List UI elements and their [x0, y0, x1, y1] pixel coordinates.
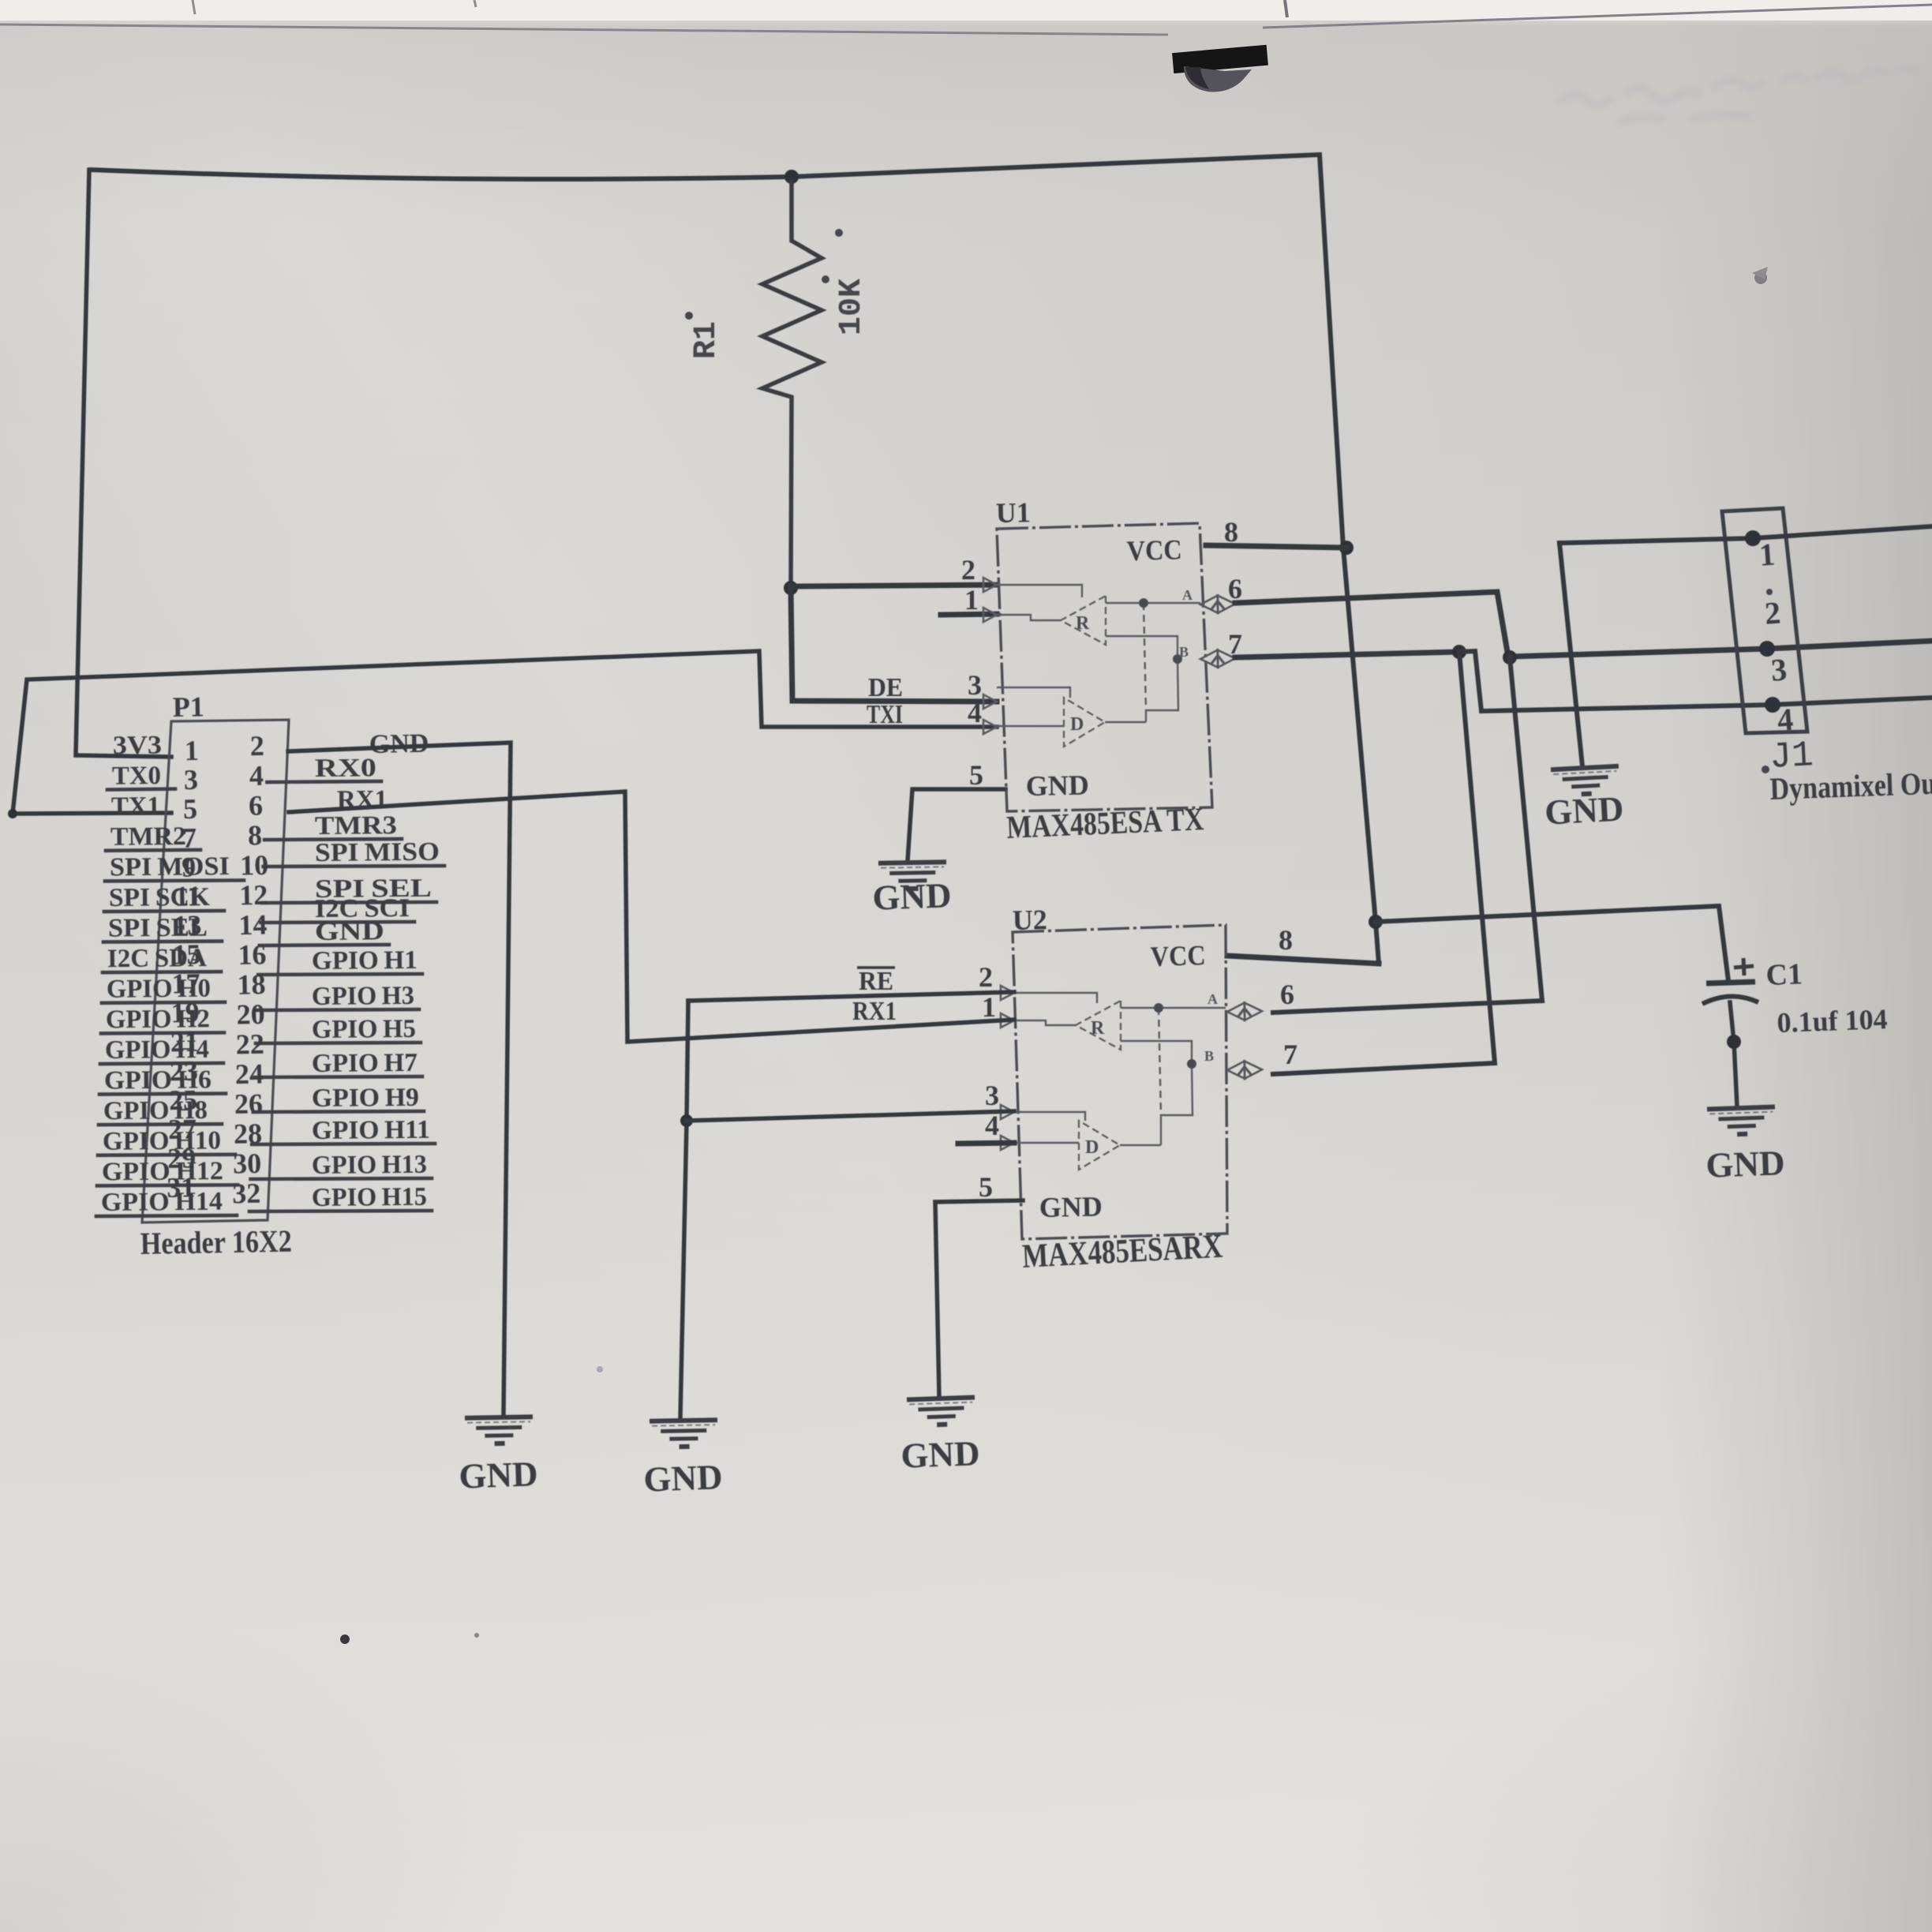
- svg-text:GPIO H1: GPIO H1: [312, 946, 417, 975]
- paper top edge line: [0, 24, 1168, 35]
- net label GPIO_H8 P1 pin 25: [99, 1124, 222, 1125]
- node U1 pin8 junction: [1339, 541, 1354, 555]
- svg-text:16: 16: [238, 938, 267, 971]
- wire U2 pin8 stub: [1227, 956, 1379, 964]
- svg-text:GND: GND: [1705, 1143, 1786, 1185]
- net label I2C_SCI P1 pin 14: [260, 922, 414, 923]
- wire RE net: U2 pin2: [688, 992, 1014, 1001]
- svg-text:32: 32: [232, 1178, 261, 1210]
- net label GPIO_H11 P1 pin 28: [252, 1144, 435, 1144]
- svg-text:TX0: TX0: [112, 762, 161, 791]
- svg-text:GPIO H11: GPIO H11: [312, 1116, 430, 1145]
- svg-text:3: 3: [1770, 651, 1788, 687]
- net label GND P1 pin 16: [260, 945, 389, 945]
- svg-text:VCC: VCC: [1126, 534, 1182, 567]
- svg-text:GPIO H10: GPIO H10: [103, 1126, 221, 1155]
- svg-text:R: R: [1076, 613, 1090, 634]
- wire B to J1 pin4 via step: [1459, 651, 1932, 711]
- svg-text:0.1uf 104: 0.1uf 104: [1777, 1003, 1888, 1039]
- node R1 top junction: [784, 170, 799, 184]
- svg-text:12: 12: [239, 879, 268, 912]
- svg-text:2: 2: [249, 730, 264, 762]
- svg-text:3: 3: [985, 1080, 999, 1111]
- svg-text:TMR3: TMR3: [315, 811, 397, 841]
- svg-text:GPIO H5: GPIO H5: [312, 1015, 416, 1044]
- op-amp U1 MAX485ESA TX box: [997, 523, 1212, 811]
- svg-text:6: 6: [249, 789, 264, 821]
- svg-text:B: B: [1179, 644, 1189, 660]
- svg-text:U1: U1: [995, 496, 1031, 529]
- node A junction D2: [1503, 650, 1517, 665]
- resistor R1: [762, 182, 822, 588]
- svg-text:8: 8: [1279, 924, 1293, 956]
- node J1 pin3: [1759, 641, 1775, 657]
- svg-text:SPI MISO: SPI MISO: [315, 838, 440, 867]
- svg-text:25: 25: [169, 1084, 198, 1116]
- svg-text:GPIO H13: GPIO H13: [312, 1151, 427, 1180]
- svg-text:4: 4: [1777, 701, 1795, 737]
- svg-text:18: 18: [237, 968, 266, 1001]
- svg-text:Dynamixel Out: Dynamixel Out: [1769, 765, 1932, 807]
- svg-text:GND: GND: [315, 917, 384, 946]
- wire B drop to U2 pin7: [1273, 652, 1495, 1074]
- svg-text:19: 19: [170, 997, 200, 1029]
- svg-text:Header 16X2: Header 16X2: [140, 1223, 292, 1261]
- wire A drop to U2 pin6: [1273, 657, 1542, 1013]
- svg-text:1: 1: [184, 735, 199, 766]
- node B junction D1: [1452, 645, 1466, 659]
- connector J1 box: [1722, 508, 1807, 733]
- svg-text:17: 17: [171, 968, 200, 1000]
- wire VCC branch to C1: [1376, 906, 1728, 981]
- U1 internal wiring: [997, 585, 1200, 726]
- svg-text:7: 7: [1283, 1039, 1297, 1070]
- svg-text:31: 31: [167, 1171, 196, 1204]
- svg-text:RX0: RX0: [315, 754, 376, 783]
- net label GPIO_H7 P1 pin 24: [254, 1076, 422, 1077]
- svg-text:D: D: [1070, 714, 1084, 735]
- svg-text:2: 2: [961, 554, 975, 586]
- node J1 pin4: [1765, 697, 1780, 713]
- svg-text:10K: 10K: [834, 279, 870, 335]
- net label GPIO_H9 P1 pin 26: [253, 1111, 424, 1112]
- svg-text:30: 30: [233, 1148, 262, 1180]
- U2 internal receiver triangle R: [1076, 1001, 1121, 1050]
- net label GPIO_H10 P1 pin 27: [98, 1155, 235, 1155]
- U2 internal wiring: [1014, 993, 1226, 1145]
- net label GPIO_H6 P1 pin 23: [99, 1094, 226, 1095]
- svg-text:11: 11: [174, 880, 202, 912]
- wire J1 pin1 net to GND and right edge: [1559, 526, 1932, 543]
- wire U2 pin3: [687, 1111, 1014, 1121]
- svg-text:RX1: RX1: [852, 997, 897, 1026]
- net label SPI_SCK P1 pin 11: [104, 911, 224, 912]
- net label GPIO_H1 P1 pin 18: [258, 974, 422, 975]
- svg-text:GND: GND: [872, 875, 953, 917]
- svg-text:8: 8: [248, 819, 263, 851]
- svg-text:29: 29: [167, 1142, 197, 1174]
- wire U1 pin1 stub: [941, 614, 997, 615]
- wire RX1 net from P1 pin6 to U2 pin1: [289, 792, 1014, 1042]
- svg-text:C1: C1: [1765, 957, 1803, 992]
- svg-text:TMR2: TMR2: [110, 822, 186, 852]
- svg-text:RE: RE: [859, 967, 893, 996]
- svg-text:DE: DE: [868, 673, 903, 702]
- svg-text:6: 6: [1280, 979, 1294, 1010]
- svg-text:7: 7: [182, 822, 197, 854]
- wire A net: U1 pin6 to J1 pin3 and right edge: [1235, 592, 1932, 657]
- ground bottom C: [907, 1397, 975, 1425]
- net label GPIO_H14 P1 pin 31: [96, 1215, 237, 1216]
- op-amp U2 MAX485ESA RX box: [1013, 925, 1227, 1239]
- net label TMR2 P1 pin 7: [106, 850, 200, 851]
- svg-text:5: 5: [969, 759, 983, 791]
- svg-text:GPIO H15: GPIO H15: [312, 1183, 427, 1212]
- net label SPI_SEL P1 pin 12: [262, 902, 436, 903]
- svg-text:4: 4: [968, 697, 982, 728]
- wire U1 pin5 to GND: [908, 789, 1005, 861]
- svg-text:14: 14: [238, 908, 268, 941]
- wire GND net from P1 pin2 down: [288, 743, 511, 1415]
- svg-text:28: 28: [234, 1118, 263, 1150]
- svg-text:2: 2: [979, 961, 993, 993]
- wire 3V3 net: P1 pin1 to left frame up over top to VCC rail: [76, 170, 171, 757]
- node VCC/C1 branch junction: [1368, 915, 1383, 929]
- svg-text:4: 4: [985, 1110, 999, 1141]
- node RE junction: [680, 1114, 693, 1127]
- net label TX0 P1 pin 3: [107, 789, 175, 790]
- svg-text:15: 15: [172, 938, 201, 971]
- svg-text:TX1: TX1: [111, 792, 160, 822]
- ground near J1: [1551, 766, 1620, 796]
- svg-text:6: 6: [1228, 573, 1242, 605]
- svg-text:R: R: [1091, 1018, 1105, 1039]
- net label GPIO_H4 P1 pin 21: [100, 1063, 223, 1064]
- wire U2 pin5 to GND: [935, 1200, 1023, 1397]
- svg-text:1: 1: [964, 584, 979, 616]
- svg-text:21: 21: [170, 1026, 199, 1058]
- svg-text:D: D: [1085, 1137, 1099, 1158]
- svg-text:1: 1: [1758, 536, 1777, 572]
- capacitor C1: [1706, 982, 1755, 983]
- svg-text:R1: R1: [689, 321, 724, 359]
- net label TMR3 P1 pin 8: [264, 839, 402, 840]
- svg-text:5: 5: [183, 793, 198, 825]
- svg-text:GND: GND: [900, 1433, 981, 1475]
- faint handwriting smudge: [1559, 67, 1918, 122]
- ground U1 pin5: [878, 862, 947, 889]
- svg-text:2: 2: [1764, 594, 1782, 631]
- svg-text:20: 20: [236, 998, 265, 1031]
- wire TX1 net: P1 pin5 left-down-up-over to U1 pin4: [13, 651, 997, 814]
- connector P1 Header 16X2 box: [142, 720, 289, 1222]
- svg-text:GND: GND: [1025, 769, 1089, 802]
- svg-text:3: 3: [968, 669, 982, 701]
- svg-text:GND: GND: [459, 1454, 539, 1496]
- net label SPI_SEL P1 pin 13: [103, 942, 222, 942]
- svg-text:3: 3: [184, 764, 199, 796]
- svg-text:8: 8: [1224, 516, 1238, 548]
- svg-text:GPIO H7: GPIO H7: [312, 1049, 417, 1078]
- wire B net: U1 pin7: [1235, 652, 1459, 657]
- svg-text:U2: U2: [1012, 904, 1047, 936]
- net label GPIO_H12 P1 pin 29: [97, 1185, 238, 1185]
- svg-text:GPIO H3: GPIO H3: [312, 982, 414, 1011]
- net label SPI_MISO P1 pin 10: [264, 866, 444, 867]
- wire U1 pin8 stub: [1206, 545, 1346, 548]
- svg-text:VCC: VCC: [1150, 939, 1206, 972]
- svg-text:GPIO H9: GPIO H9: [312, 1084, 419, 1113]
- black hole marker blob: [1172, 45, 1268, 73]
- net label RX0 P1 pin 4: [267, 781, 381, 782]
- net label GPIO_H0 P1 pin 17: [102, 1002, 225, 1003]
- wire top frame horizontal: [89, 155, 1320, 179]
- ground bottom A: [465, 1417, 534, 1443]
- net label GPIO_H3 P1 pin 20: [257, 1009, 419, 1010]
- ground under C1: [1707, 1106, 1776, 1135]
- svg-text:GPIO H12: GPIO H12: [102, 1157, 223, 1186]
- svg-text:24: 24: [235, 1058, 264, 1090]
- paper specks: [340, 1634, 350, 1644]
- svg-text:23: 23: [170, 1055, 199, 1088]
- node R1 bottom / U1 pin2 junction: [784, 581, 798, 595]
- net label GPIO_H15 P1 pin 32: [249, 1211, 432, 1211]
- net label GPIO_H13 P1 pin 30: [251, 1178, 432, 1179]
- wire U2 pin4 stub: [958, 1143, 1014, 1144]
- net label GPIO_H5 P1 pin 22: [256, 1043, 421, 1043]
- wire DE vertical + U1 pin3: [791, 588, 997, 702]
- svg-text:13: 13: [173, 909, 202, 942]
- wire RE/DE-RX down to ground: [680, 1001, 688, 1418]
- wire U1 pin2: [791, 585, 997, 586]
- svg-text:B: B: [1204, 1048, 1214, 1064]
- node J1 pin1: [1745, 530, 1761, 546]
- svg-text:SPI MOSI: SPI MOSI: [110, 852, 230, 882]
- node C1 lead: [1727, 1035, 1741, 1049]
- U1 internal driver triangle D: [1064, 698, 1105, 747]
- U1 internal receiver triangle R: [1061, 596, 1106, 645]
- wire VCC vertical right: [1320, 155, 1379, 964]
- net label SPI_MOSI P1 pin 9: [105, 880, 244, 881]
- net label I2C_SDA P1 pin 15: [103, 972, 221, 972]
- svg-text:4: 4: [249, 760, 264, 792]
- svg-text:A: A: [1182, 587, 1193, 603]
- svg-text:26: 26: [234, 1088, 264, 1120]
- svg-text:3V3: 3V3: [113, 731, 162, 760]
- svg-text:5: 5: [979, 1171, 993, 1203]
- svg-text:9: 9: [182, 851, 197, 882]
- svg-text:22: 22: [235, 1028, 264, 1061]
- svg-text:1: 1: [982, 991, 996, 1023]
- svg-text:GND: GND: [1544, 788, 1624, 832]
- svg-text:GND: GND: [643, 1457, 724, 1499]
- svg-text:GND: GND: [1039, 1191, 1103, 1223]
- svg-text:27: 27: [168, 1113, 197, 1145]
- ground bottom B: [650, 1420, 718, 1447]
- label C1 plus: [1734, 958, 1754, 975]
- svg-text:10: 10: [240, 849, 269, 882]
- svg-text:P1: P1: [172, 691, 204, 723]
- U2 internal driver triangle D: [1079, 1121, 1120, 1170]
- net label GPIO_H2 P1 pin 19: [101, 1032, 224, 1033]
- svg-text:A: A: [1207, 991, 1218, 1007]
- svg-text:GPIO H14: GPIO H14: [101, 1188, 223, 1217]
